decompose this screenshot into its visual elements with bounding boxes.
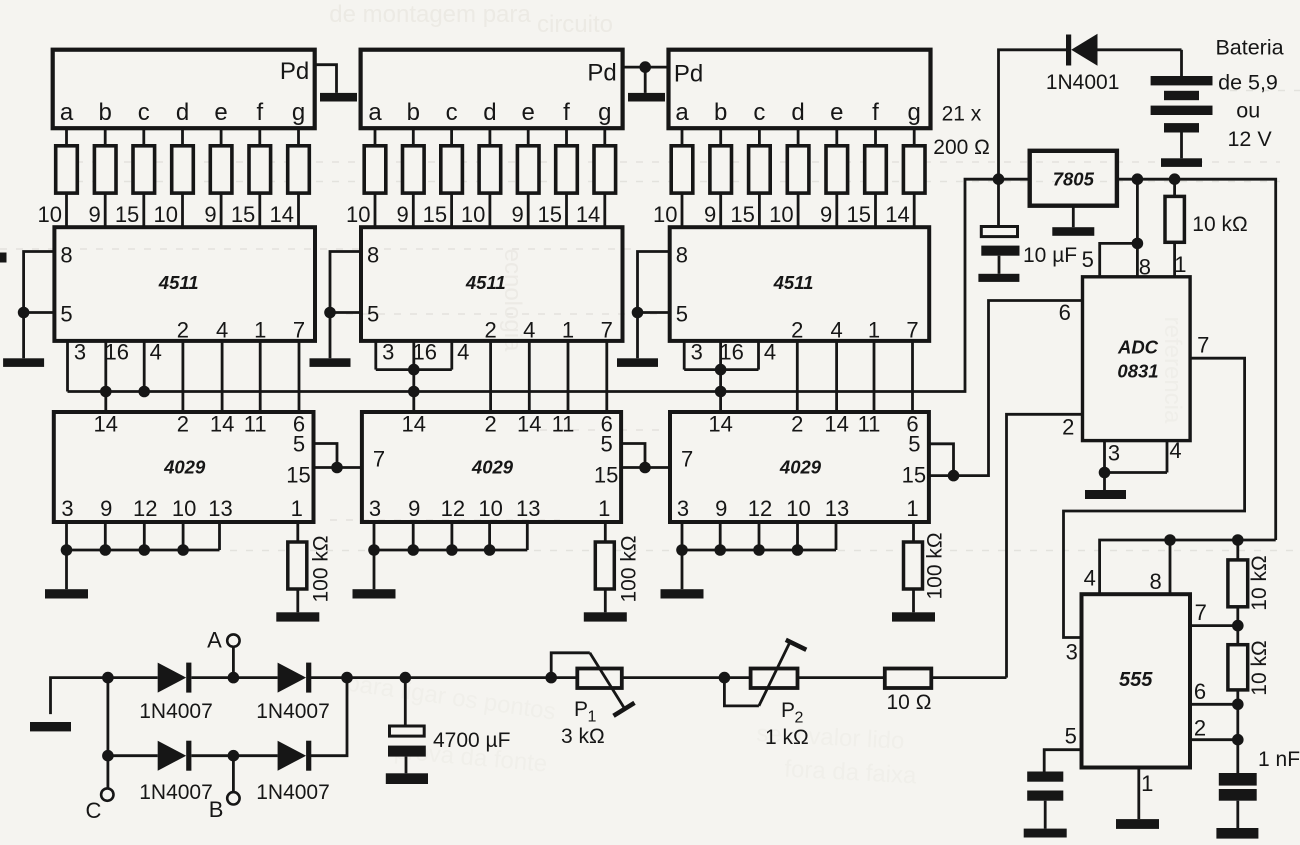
IC 4511 #1 (BCD to 7-seg decoder) xyxy=(54,227,315,342)
svg-text:10 µF: 10 µF xyxy=(1023,244,1077,267)
resistor 100k&#937; at 4029 #1 pin 1 xyxy=(288,522,307,612)
svg-text:12: 12 xyxy=(133,496,157,521)
resistor R2 10k&#937; (555 timing) xyxy=(1228,540,1248,626)
svg-text:21 x: 21 x xyxy=(942,103,982,126)
wire: 555 pin 7 stub xyxy=(1190,624,1238,627)
svg-text:14: 14 xyxy=(885,202,909,227)
junction dot: 4511 #1 pin 16 on bus xyxy=(100,386,112,398)
IC 4029 #1 (up/down counter) xyxy=(54,412,314,523)
svg-text:10: 10 xyxy=(653,202,677,227)
svg-text:555: 555 xyxy=(1119,669,1153,691)
ground: 4511 #3 pins 8,5 xyxy=(617,358,658,367)
diode D1 1N4007 xyxy=(158,663,192,693)
svg-text:15: 15 xyxy=(902,463,926,488)
ground: C2 xyxy=(1216,828,1258,839)
pin label: 555 2 xyxy=(1194,716,1206,741)
svg-text:100 kΩ: 100 kΩ xyxy=(924,532,947,599)
label: 10 uF xyxy=(1023,244,1077,267)
svg-text:15: 15 xyxy=(423,202,447,227)
wire: 4029 #2 pins 3,9,12,10,13 common to ground xyxy=(368,522,527,589)
svg-text:7805: 7805 xyxy=(1053,169,1095,190)
ground: 555 pin 1 xyxy=(1116,819,1159,829)
resistor 200&#937; DISP3 segment f (with wire and 4511 pin 15) xyxy=(847,128,887,227)
label: D4 1N4007 xyxy=(256,781,330,804)
label: 3 k&#937; xyxy=(561,725,605,748)
wire: 4511 #3 pins 3,16,4 bracket to bus and 4029 #3 pin 14 xyxy=(684,341,758,412)
svg-text:b: b xyxy=(714,99,727,126)
svg-text:B: B xyxy=(209,797,224,822)
resistor 200&#937; DISP2 segment f (with wire and 4511 pin 15) xyxy=(538,128,578,227)
svg-text:4511: 4511 xyxy=(465,272,506,293)
label: 10 k&#937; (R1) xyxy=(1192,213,1247,236)
svg-text:7: 7 xyxy=(1197,333,1209,358)
svg-text:3: 3 xyxy=(691,340,703,365)
wire: 4511 #2 pins 3,16,4 bracket to bus and 4029 #2 pin 14 xyxy=(376,341,452,412)
ground: C3 xyxy=(1024,829,1067,838)
svg-text:2: 2 xyxy=(484,318,496,343)
potentiometer P1 3k (rheostat) xyxy=(551,653,634,716)
svg-text:4: 4 xyxy=(523,318,535,343)
svg-text:a: a xyxy=(675,99,689,126)
wire: +5V to ADC pin 8 xyxy=(1136,179,1139,277)
pin label: 555 5 xyxy=(1065,724,1077,749)
svg-text:13: 13 xyxy=(516,496,540,521)
label: 200 &#937; xyxy=(933,136,990,159)
wire: 555 pin 2 stub xyxy=(1190,738,1238,741)
svg-text:2: 2 xyxy=(1194,716,1206,741)
svg-text:3: 3 xyxy=(382,340,394,365)
wire: +5V line to 555 pins 4,8 xyxy=(1100,540,1276,594)
svg-text:7: 7 xyxy=(1195,600,1207,625)
svg-text:3: 3 xyxy=(61,496,73,521)
svg-text:4029: 4029 xyxy=(163,457,206,478)
capacitor C3 (555 pin 5 bypass) xyxy=(1027,772,1063,829)
svg-text:3: 3 xyxy=(74,340,86,365)
ground: DISP1 Pd xyxy=(320,93,357,102)
capacitor C1 10uF xyxy=(981,179,1019,274)
junction dot: Pd node xyxy=(639,61,651,73)
wire: ADC pin 2 to divider tap xyxy=(1007,414,1083,677)
ground: 4029 #1 pin 3 bus xyxy=(45,589,88,598)
pin label: 555 7 xyxy=(1195,600,1207,625)
svg-text:11: 11 xyxy=(244,412,267,437)
svg-text:1: 1 xyxy=(868,318,880,343)
svg-text:5: 5 xyxy=(293,432,305,457)
junction dot: bridge + node xyxy=(341,672,353,684)
resistor 200&#937; DISP3 segment c (with wire and 4511 pin 15) xyxy=(730,128,770,227)
label: 10 &#937; xyxy=(887,691,932,714)
svg-text:d: d xyxy=(483,99,496,126)
ground: C4 xyxy=(386,773,428,784)
resistor 200&#937; DISP2 segment g (with wire and 4511 pin 14) xyxy=(576,128,616,227)
junction dot: 7805 input node xyxy=(993,173,1005,185)
svg-text:1 nF: 1 nF xyxy=(1258,748,1300,771)
ground: 100k&#937; #3 xyxy=(892,612,935,621)
svg-text:2: 2 xyxy=(1062,415,1074,440)
ground: 100k&#937; #1 xyxy=(276,612,319,621)
svg-text:7: 7 xyxy=(601,318,613,343)
diode D5 1N4001 xyxy=(1066,34,1182,66)
svg-text:14: 14 xyxy=(94,412,118,437)
wire: 4029 #3 pins 3,9,12,10,13 common to ground xyxy=(676,522,836,589)
svg-text:0831: 0831 xyxy=(1117,361,1158,382)
svg-text:A: A xyxy=(207,628,222,653)
junction dot: 4029 #1 pin5/15 xyxy=(331,462,343,474)
svg-text:14: 14 xyxy=(517,412,541,437)
svg-text:10: 10 xyxy=(38,202,62,227)
svg-text:6: 6 xyxy=(1059,300,1071,325)
terminal C xyxy=(101,788,113,800)
wire: D3 to D4 xyxy=(192,754,278,757)
svg-text:10: 10 xyxy=(154,202,178,227)
IC 4029 #3 (up/down counter) xyxy=(670,412,929,523)
label: 100 k&#937; #1 xyxy=(310,535,333,602)
resistor 200&#937; DISP3 segment d (with wire and 4511 pin 10) xyxy=(769,128,809,227)
svg-text:b: b xyxy=(99,99,112,126)
svg-text:ecnologia: ecnologia xyxy=(499,249,526,352)
wire: 555 pin 1 to ground xyxy=(1137,768,1140,820)
svg-text:4700 µF: 4700 µF xyxy=(433,729,510,752)
svg-text:de 5,9: de 5,9 xyxy=(1218,70,1278,94)
svg-text:Pd: Pd xyxy=(280,58,309,85)
svg-text:14: 14 xyxy=(824,412,848,437)
svg-text:14: 14 xyxy=(210,412,234,437)
capacitor C4 4700uF xyxy=(388,678,426,774)
svg-text:10: 10 xyxy=(769,202,793,227)
pin label: 555 1 xyxy=(1141,771,1153,796)
ground: 4511 #2 pins 8,5 xyxy=(310,358,351,367)
wire: +V node to 1N4001 anode xyxy=(999,50,1067,179)
svg-text:1: 1 xyxy=(1141,771,1153,796)
resistor 200&#937; DISP2 segment b (with wire and 4511 pin 9) xyxy=(397,128,425,227)
label: 1 nF xyxy=(1258,748,1300,771)
svg-text:referencia: referencia xyxy=(1159,317,1186,424)
wire: 4029 #1 pins 3,9,12,10,13 common to ground xyxy=(61,522,220,589)
resistor 100k&#937; at 4029 #3 pin 1 xyxy=(904,522,923,612)
svg-text:4029: 4029 xyxy=(779,457,822,478)
svg-text:9: 9 xyxy=(88,202,100,227)
svg-text:9: 9 xyxy=(408,496,420,521)
wire: DISP2 Pd to DISP3 Pd xyxy=(623,66,669,69)
resistor 200&#937; DISP1 segment e (with wire and 4511 pin 9) xyxy=(204,128,232,227)
wire: P1 to P2 xyxy=(622,676,751,679)
svg-text:13: 13 xyxy=(825,496,849,521)
ground: 4029 #2 pin 3 bus xyxy=(353,589,396,598)
diode D2 1N4007 xyxy=(278,663,312,693)
svg-text:5: 5 xyxy=(60,302,72,327)
svg-text:P: P xyxy=(781,699,795,722)
svg-text:circuito: circuito xyxy=(537,11,613,38)
ground: main line left xyxy=(30,722,71,731)
display DISP1 (7-segment, common anode) xyxy=(53,50,315,129)
svg-text:3: 3 xyxy=(677,496,689,521)
svg-text:15: 15 xyxy=(115,202,139,227)
svg-text:7: 7 xyxy=(906,318,918,343)
wire: 7805 output rail xyxy=(1117,179,1276,540)
wire: Pd node stem xyxy=(644,67,647,93)
resistor 200&#937; DISP1 segment d (with wire and 4511 pin 10) xyxy=(154,128,194,227)
wire: D4 to bridge + node xyxy=(311,678,347,756)
svg-text:7: 7 xyxy=(681,447,693,472)
junction dot: +5V at 10k branch xyxy=(1169,173,1181,185)
label: 4700 uF xyxy=(433,729,510,752)
svg-text:8: 8 xyxy=(676,243,688,268)
svg-text:10: 10 xyxy=(786,496,810,521)
pin label: 555 6 xyxy=(1194,679,1206,704)
wire: 4511 #2 pins 2,4,1,7 to 4029 #2 pins 2,14,11,6 xyxy=(491,341,607,412)
svg-text:10 Ω: 10 Ω xyxy=(887,691,932,714)
wire: 4029 #2 pin 15 to 4029 #3 pin 7 xyxy=(621,466,670,469)
svg-text:g: g xyxy=(908,99,921,126)
junction dot: 555 pin 7 node xyxy=(1232,620,1244,632)
wire: D2 cathode to filter node xyxy=(311,676,552,679)
label: 1N4001 xyxy=(1046,71,1120,94)
wire: P2 to R4 xyxy=(798,676,885,679)
ground: 4029 #3 pin 3 bus xyxy=(661,589,704,598)
svg-text:f: f xyxy=(563,99,570,126)
svg-text:9: 9 xyxy=(704,202,716,227)
capacitor C2 1nF xyxy=(1219,740,1257,828)
svg-text:100 kΩ: 100 kΩ xyxy=(618,535,641,602)
regulator U7805 xyxy=(1030,151,1117,206)
svg-text:8: 8 xyxy=(1149,569,1161,594)
svg-text:e: e xyxy=(214,99,227,126)
label: A xyxy=(207,628,222,653)
wire: ADC pins 3,4 to ground xyxy=(1099,441,1167,490)
IC 4511 #3 (BCD to 7-seg decoder) xyxy=(670,227,930,342)
resistor 200&#937; DISP2 segment c (with wire and 4511 pin 15) xyxy=(423,128,463,227)
svg-text:9: 9 xyxy=(511,202,523,227)
resistor 200&#937; DISP3 segment a (with wire and 4511 pin 10) xyxy=(653,128,693,227)
svg-text:9: 9 xyxy=(204,202,216,227)
ground: 7805 xyxy=(1052,227,1094,236)
svg-text:2: 2 xyxy=(791,318,803,343)
svg-text:15: 15 xyxy=(847,202,871,227)
display DISP2 (7-segment, common anode) xyxy=(361,50,623,129)
svg-text:f: f xyxy=(256,99,263,126)
resistor 200&#937; DISP3 segment b (with wire and 4511 pin 9) xyxy=(704,128,732,227)
svg-text:4029: 4029 xyxy=(471,457,514,478)
svg-text:200 Ω: 200 Ω xyxy=(933,136,990,159)
svg-text:10: 10 xyxy=(461,202,485,227)
svg-text:1N4007: 1N4007 xyxy=(139,700,213,723)
label: D2 1N4007 xyxy=(256,700,330,723)
pin label: ADC 3 xyxy=(1108,441,1120,466)
diode D3 1N4007 xyxy=(158,741,192,771)
svg-text:15: 15 xyxy=(594,463,618,488)
svg-text:15: 15 xyxy=(730,202,754,227)
resistor 200&#937; DISP1 segment f (with wire and 4511 pin 15) xyxy=(231,128,271,227)
pin label: ADC 7 xyxy=(1197,333,1209,358)
svg-text:14: 14 xyxy=(270,202,294,227)
pin labels: 4511 #3 pins 3 16 4 xyxy=(691,340,777,365)
wire: 7805 ground tab xyxy=(1072,206,1075,228)
resistor R1 10k&#937; (ADC pin 1 pullup) xyxy=(1165,179,1184,277)
wire: 555 pin 8 stub xyxy=(1169,540,1172,594)
svg-text:4511: 4511 xyxy=(773,272,814,293)
svg-text:g: g xyxy=(598,99,611,126)
svg-text:c: c xyxy=(138,99,150,126)
svg-text:7: 7 xyxy=(293,318,305,343)
wire: R4 to ADC pin 2 riser xyxy=(931,676,1006,679)
svg-text:10: 10 xyxy=(346,202,370,227)
svg-text:15: 15 xyxy=(286,463,310,488)
svg-text:2: 2 xyxy=(795,710,804,727)
resistor 200&#937; DISP2 segment d (with wire and 4511 pin 10) xyxy=(461,128,501,227)
svg-text:a: a xyxy=(368,99,382,126)
pin label: 555 3 xyxy=(1066,640,1078,665)
svg-text:Pd: Pd xyxy=(674,61,703,88)
svg-text:de montagem para: de montagem para xyxy=(329,1,531,28)
wire: 4029 #1 pin 5 bracket xyxy=(314,444,338,468)
svg-text:2: 2 xyxy=(791,412,803,437)
svg-text:14: 14 xyxy=(576,202,600,227)
pin label: ADC 4 xyxy=(1169,438,1181,463)
label: 21 x xyxy=(942,103,982,126)
wire: 4511 #1 pin 3 to VDD bus xyxy=(66,341,69,392)
wire: D1 to D2 xyxy=(192,676,278,679)
svg-text:a: a xyxy=(60,99,74,126)
svg-text:4: 4 xyxy=(216,318,228,343)
svg-text:10 kΩ: 10 kΩ xyxy=(1192,213,1247,236)
junction dot: upper row at C column xyxy=(102,672,114,684)
wire: 4511 #2 pins 8,5 to ground xyxy=(324,252,361,359)
junction dot: 555 pin 6 node xyxy=(1232,699,1244,711)
svg-text:1: 1 xyxy=(254,318,266,343)
potentiometer P2 1k (rheostat) xyxy=(724,640,806,706)
wire: ADC pin 5 bracket xyxy=(1100,243,1138,276)
svg-text:11: 11 xyxy=(552,412,575,437)
svg-text:1N4001: 1N4001 xyxy=(1046,71,1120,94)
resistor 200&#937; DISP2 segment a (with wire and 4511 pin 10) xyxy=(346,128,386,227)
svg-text:8: 8 xyxy=(367,243,379,268)
svg-text:10 kΩ: 10 kΩ xyxy=(1248,555,1271,610)
svg-text:g: g xyxy=(292,99,305,126)
pin label: 555 4 xyxy=(1084,566,1096,591)
svg-text:2: 2 xyxy=(177,318,189,343)
svg-text:3: 3 xyxy=(369,496,381,521)
svg-text:5: 5 xyxy=(1082,247,1094,272)
svg-text:ADC: ADC xyxy=(1117,337,1159,358)
IC 4029 #2 (up/down counter) xyxy=(362,412,621,523)
svg-text:4: 4 xyxy=(457,340,469,365)
junction dot: filter cap node xyxy=(400,672,412,684)
junction dot: P2 left terminal xyxy=(719,672,731,684)
junction dot: 555 pin 2 node xyxy=(1232,734,1244,746)
pin label: ADC 6 xyxy=(1059,300,1071,325)
svg-text:4: 4 xyxy=(764,340,776,365)
svg-text:c: c xyxy=(753,99,765,126)
junction dot: pin5/pin8 node xyxy=(1132,238,1144,250)
svg-text:e: e xyxy=(830,99,843,126)
svg-text:3: 3 xyxy=(1108,441,1120,466)
svg-text:c: c xyxy=(446,99,458,126)
svg-text:10: 10 xyxy=(172,496,196,521)
label: 100 k&#937; #2 xyxy=(618,535,641,602)
resistor 200&#937; DISP3 segment g (with wire and 4511 pin 14) xyxy=(885,128,925,227)
svg-text:4: 4 xyxy=(1084,566,1096,591)
svg-text:5: 5 xyxy=(676,302,688,327)
pin label: ADC 5 xyxy=(1082,247,1094,272)
label: 10 k&#937; (R2) xyxy=(1248,555,1271,610)
svg-text:9: 9 xyxy=(100,496,112,521)
label: 10 k&#937; (R3) xyxy=(1248,640,1271,695)
svg-text:5: 5 xyxy=(1065,724,1077,749)
svg-text:5: 5 xyxy=(908,432,920,457)
junction dot: 555 pin 8 on +5V xyxy=(1164,534,1176,546)
wire: 4511 #1 pin 16 to bus and 4029 #1 pin 14 xyxy=(104,341,107,412)
svg-text:11: 11 xyxy=(858,412,881,437)
wire: 4511 #1 pins 2,4,1,7 to 4029 #1 pins 2,14,11,6 xyxy=(183,341,299,412)
svg-text:16: 16 xyxy=(413,340,437,365)
wire: 4511 #1 pins 8,5 to ground xyxy=(18,252,55,359)
svg-text:12: 12 xyxy=(748,496,772,521)
svg-text:9: 9 xyxy=(397,202,409,227)
junction dot: 4029 #3 pin5/15 xyxy=(948,470,960,482)
svg-text:10 kΩ: 10 kΩ xyxy=(1248,640,1271,695)
svg-text:1: 1 xyxy=(562,318,574,343)
svg-text:100 kΩ: 100 kΩ xyxy=(310,535,333,602)
wire: ADC pin 7 to 555 pin 3 xyxy=(1064,358,1245,637)
terminal A xyxy=(227,634,239,677)
svg-text:d: d xyxy=(176,99,189,126)
diode D4 1N4007 xyxy=(278,741,312,771)
svg-text:15: 15 xyxy=(538,202,562,227)
pin label: ADC 2 xyxy=(1062,415,1074,440)
svg-text:C: C xyxy=(86,798,102,823)
svg-text:4: 4 xyxy=(1169,438,1181,463)
svg-text:1N4007: 1N4007 xyxy=(139,781,213,804)
wire: 4029 #3 pin 5 bracket xyxy=(929,444,954,476)
svg-text:4: 4 xyxy=(150,340,162,365)
svg-text:15: 15 xyxy=(231,202,255,227)
resistor 100k&#937; at 4029 #2 pin 1 xyxy=(595,522,614,612)
wire: 555 pin 5 to C3 xyxy=(1044,750,1081,772)
svg-text:1: 1 xyxy=(1174,252,1186,277)
svg-text:Bateria: Bateria xyxy=(1215,35,1283,59)
label: P2 xyxy=(781,699,804,727)
svg-text:1N4007: 1N4007 xyxy=(256,700,330,723)
svg-text:P: P xyxy=(574,698,588,721)
ground: DISP2/DISP3 Pd xyxy=(628,93,665,102)
wire: 4029 #1 pin 15 to 4029 #2 pin 7 xyxy=(314,466,362,469)
svg-text:10: 10 xyxy=(478,496,502,521)
wire: DISP1 Pd to ground xyxy=(315,65,337,93)
label: de 5,9 xyxy=(1218,70,1278,94)
svg-text:14: 14 xyxy=(708,412,732,437)
svg-text:5: 5 xyxy=(600,432,612,457)
label: Bateria xyxy=(1215,35,1283,59)
wire: 4029 #3 pin 15 to ADC pin 6 xyxy=(929,301,1083,476)
junction dot: timing chain top xyxy=(1232,534,1244,546)
label: P1 xyxy=(574,698,597,726)
svg-text:12: 12 xyxy=(441,496,465,521)
resistor 200&#937; DISP2 segment e (with wire and 4511 pin 9) xyxy=(511,128,539,227)
junction dot: +5V at ADC pin 8 branch xyxy=(1132,173,1144,185)
svg-text:f: f xyxy=(872,99,879,126)
ground: 4511 #1 pins 8,5 xyxy=(3,358,44,367)
wire: C input column xyxy=(107,678,110,789)
ground: battery xyxy=(1161,158,1202,167)
svg-text:5: 5 xyxy=(367,302,379,327)
svg-text:1 kΩ: 1 kΩ xyxy=(765,726,809,749)
svg-text:2: 2 xyxy=(484,412,496,437)
svg-text:ou: ou xyxy=(1236,99,1260,123)
wire: 4511 #1 pin 4 to bus xyxy=(143,341,146,392)
svg-text:1N4007: 1N4007 xyxy=(256,781,330,804)
svg-text:8: 8 xyxy=(60,243,72,268)
junction dot: lower row at C column xyxy=(102,750,114,762)
